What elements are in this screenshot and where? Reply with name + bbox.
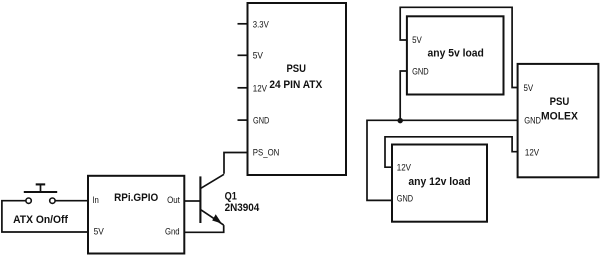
pin label 5V (MOLEX) — [524, 83, 534, 93]
label 24 PIN ATX — [269, 79, 323, 91]
wire: RPi.GPIO Gnd to Q1 emitter — [184, 225, 223, 232]
svg-text:GND: GND — [253, 115, 270, 125]
svg-text:12V: 12V — [397, 162, 412, 172]
pin label 5V (ATX) — [253, 51, 264, 61]
label PSU (MOLEX) — [550, 96, 570, 108]
svg-text:5V: 5V — [94, 226, 105, 236]
label ATX On/Off — [13, 214, 68, 226]
svg-text:any 5v load: any 5v load — [428, 48, 484, 60]
block RPi.GPIO — [88, 176, 184, 254]
svg-text:PS_ON: PS_ON — [253, 147, 279, 157]
svg-text:In: In — [92, 195, 99, 205]
block PSU 24 PIN ATX — [248, 3, 347, 175]
pin label GND (MOLEX) — [524, 115, 541, 125]
svg-text:PSU: PSU — [286, 63, 306, 75]
pin label 12V (MOLEX) — [525, 147, 540, 157]
pin label GND (ATX) — [253, 115, 270, 125]
svg-text:5V: 5V — [524, 83, 534, 93]
pin label 5V (RPi) — [94, 226, 105, 236]
wire: 5V net MOLEX 5V to any 5v load 5V — [400, 7, 517, 87]
svg-text:Out: Out — [167, 195, 180, 205]
wire: 12V net MOLEX 12V to any 12v load 12V — [385, 137, 518, 167]
block PSU MOLEX — [518, 64, 599, 177]
pin stub 12V (ATX) — [238, 87, 248, 89]
label PSU (ATX) — [286, 63, 306, 75]
svg-text:MOLEX: MOLEX — [541, 111, 579, 123]
block any 12v load — [392, 145, 487, 222]
svg-text:5V: 5V — [412, 35, 422, 45]
label 2N3904 — [225, 202, 260, 214]
pin label GND (12v load) — [397, 194, 414, 204]
svg-text:24 PIN ATX: 24 PIN ATX — [269, 79, 323, 91]
wire: PSU PS_ON to Q1 collector — [224, 153, 248, 174]
pin stub GND (ATX) — [238, 119, 248, 121]
wire: switch left terminal loop to RPi.GPIO 5V — [2, 201, 88, 232]
svg-text:Q1: Q1 — [225, 190, 237, 202]
pin label GND (5v load) — [412, 66, 429, 76]
pin label 5V (5v load) — [412, 35, 422, 45]
block any 5v load — [407, 16, 504, 94]
transistor Q1 2N3904 — [200, 174, 224, 225]
svg-text:5V: 5V — [253, 51, 264, 61]
pin label In — [92, 195, 99, 205]
svg-text:any 12v load: any 12v load — [408, 176, 470, 188]
label any 5v load — [428, 48, 484, 60]
pin label 3.3V — [253, 19, 270, 29]
svg-text:GND: GND — [397, 194, 414, 204]
pin stub 3.3V — [238, 23, 248, 25]
label Q1 — [225, 190, 237, 202]
svg-text:ATX On/Off: ATX On/Off — [13, 214, 68, 226]
pin stub 5V (ATX) — [238, 54, 248, 56]
junction dot GND net — [397, 118, 403, 124]
wire: any 5v load GND drop to GND net — [400, 71, 407, 120]
svg-text:3.3V: 3.3V — [253, 19, 270, 29]
pin label 12V (12v load) — [397, 162, 412, 172]
pin label Out — [167, 195, 180, 205]
wire: GND net MOLEX GND to any 12v load GND — [367, 120, 518, 200]
svg-text:RPi.GPIO: RPi.GPIO — [114, 192, 158, 204]
pin label Gnd — [165, 226, 180, 236]
svg-text:2N3904: 2N3904 — [225, 202, 260, 214]
wire: RPi.GPIO Out to Q1 base — [184, 200, 199, 202]
svg-text:GND: GND — [524, 115, 541, 125]
pushbutton SW1 ATX On/Off — [24, 184, 57, 203]
svg-text:12V: 12V — [525, 147, 540, 157]
svg-text:12V: 12V — [253, 83, 268, 93]
label any 12v load — [408, 176, 470, 188]
svg-text:Gnd: Gnd — [165, 226, 180, 236]
svg-text:PSU: PSU — [550, 96, 570, 108]
pin label 12V (ATX) — [253, 83, 268, 93]
pin label PS_ON — [253, 147, 279, 157]
label RPi.GPIO — [114, 192, 158, 204]
wire: switch right terminal to RPi.GPIO In — [55, 200, 88, 202]
svg-text:GND: GND — [412, 66, 429, 76]
label MOLEX — [541, 111, 579, 123]
